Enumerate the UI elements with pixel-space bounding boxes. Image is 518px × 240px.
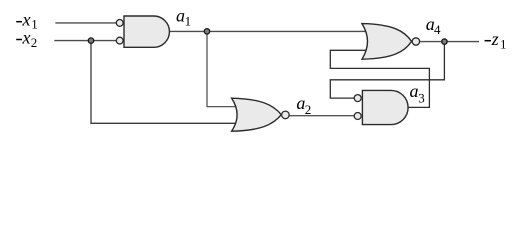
bubble U4 output	[412, 38, 419, 45]
bubble U3 input pin 2	[354, 113, 361, 120]
label -x2	[16, 39, 22, 41]
svg-text:4: 4	[434, 22, 441, 37]
wire -x1 input to U1 top bubble	[55, 22, 116, 24]
and-gate U1 (inverted-input AND, output a1)	[124, 16, 169, 47]
nor-gate U4 (output a4)	[362, 24, 412, 60]
bubble U2 output	[282, 111, 290, 119]
svg-text:a: a	[410, 81, 419, 101]
junction dot on -x2 line	[88, 38, 93, 43]
svg-text:2: 2	[305, 102, 312, 117]
svg-text:1: 1	[500, 37, 507, 52]
label -z1	[485, 40, 491, 42]
nor-gate U2 (output a2)	[232, 98, 282, 131]
bubble U1 input pin 1	[116, 20, 123, 27]
svg-text:3: 3	[418, 90, 425, 105]
svg-text:1: 1	[185, 13, 192, 28]
wire a4 output	[420, 41, 479, 43]
wire -x2 input to U1 bottom bubble	[54, 40, 116, 42]
svg-text:z: z	[491, 29, 499, 49]
wire a4 feedback branch to U3 top bubble	[330, 42, 444, 99]
wire a2 output to U3 bottom bubble	[289, 115, 354, 117]
svg-text:1: 1	[31, 17, 38, 32]
svg-text:2: 2	[31, 35, 38, 50]
junction dot on a1 line	[204, 29, 209, 34]
wire a3 output feedback to NOR U4 bottom input	[330, 50, 429, 107]
wire a1 branch down to NOR U2 top input	[207, 31, 240, 106]
bubble U1 input pin 2	[116, 37, 123, 44]
svg-text:x: x	[22, 27, 31, 47]
junction dot on a4 line	[442, 39, 447, 44]
label -x1	[16, 21, 22, 23]
bubble U3 input pin 1	[354, 95, 361, 102]
wire -x2 branch down from junction to NOR U2 bottom input	[91, 41, 240, 124]
wire a1 output to NOR U4 top input	[169, 30, 368, 32]
and-gate U3 (inverted-input AND, output a3)	[362, 90, 408, 124]
